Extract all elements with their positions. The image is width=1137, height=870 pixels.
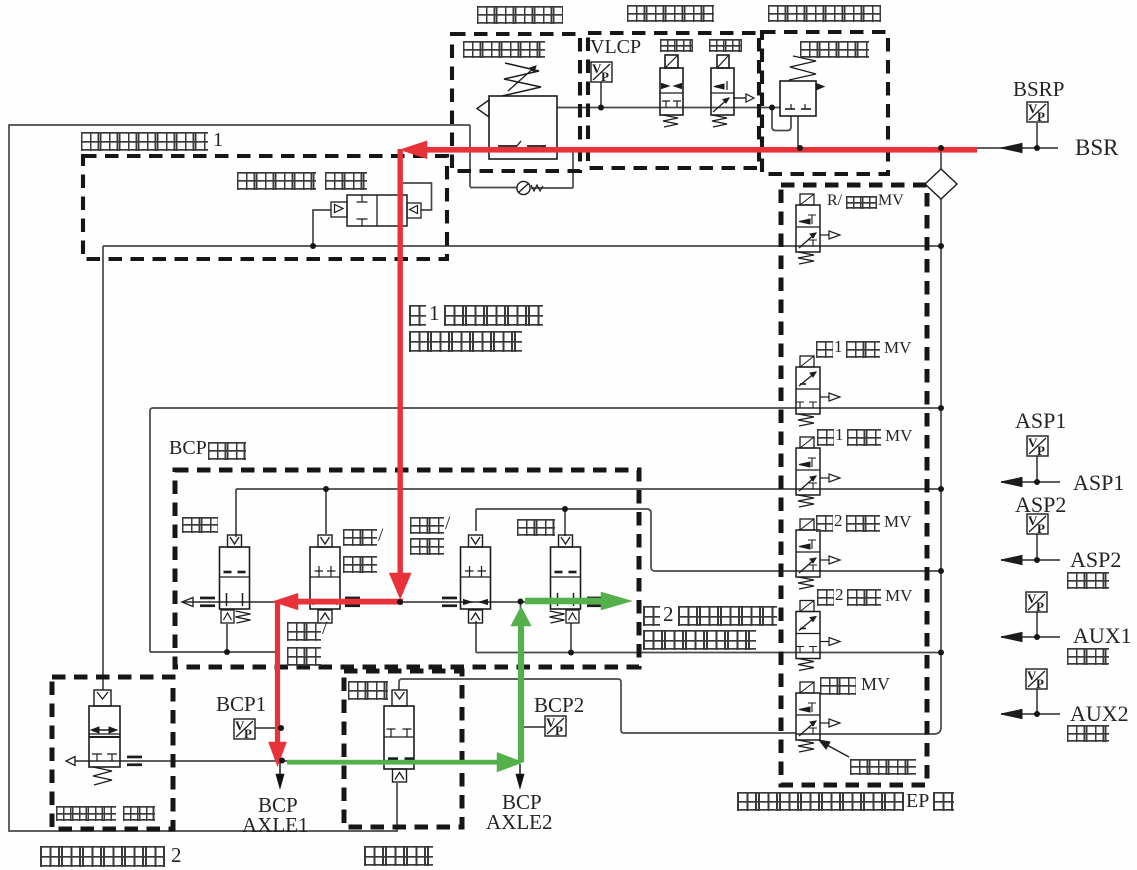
svg-text:P: P — [1037, 443, 1045, 458]
svg-text:P: P — [601, 69, 609, 84]
svg-text:P: P — [1037, 109, 1045, 124]
svg-text:P: P — [1036, 676, 1044, 691]
svg-text:P: P — [244, 726, 252, 741]
svg-text:P: P — [555, 723, 563, 738]
svg-text:P: P — [1036, 599, 1044, 614]
svg-text:P: P — [1037, 521, 1045, 536]
